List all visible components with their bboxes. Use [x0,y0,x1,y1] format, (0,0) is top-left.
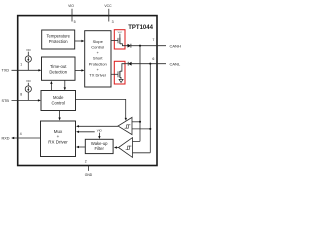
svg-text:Filter: Filter [95,146,105,151]
svg-text:Protection: Protection [49,39,69,44]
block Wake-up Filter [85,139,113,153]
wire Wake-up Filter to Mux [78,146,85,148]
svg-text:3: 3 [112,20,114,24]
block Time-out Detection [42,57,76,80]
wake-up comparator U2 [119,138,133,158]
transistor high-side PMOS [119,34,121,38]
svg-text:7: 7 [152,38,154,42]
svg-text:RXD: RXD [2,136,10,140]
svg-text:2: 2 [85,159,87,163]
current source VIO pull on TXD [25,48,31,70]
svg-text:VIO: VIO [26,48,31,52]
svg-text:VIO: VIO [97,128,103,132]
svg-text:Detection: Detection [49,69,67,74]
svg-text:Mux: Mux [54,129,63,134]
svg-text:Mode: Mode [53,95,64,100]
ground symbol [119,79,123,82]
RX comparator U1 [118,117,132,134]
transistor low-side NMOS [119,71,121,78]
block Mux + RX Driver [41,121,76,157]
chip outline TPT1044 [18,16,157,166]
svg-text:8: 8 [20,93,22,97]
wire Temperature Protection to Slope block [75,40,82,42]
low-side driver red box [111,61,125,84]
wire RX comparator output to Mux [78,125,118,127]
svg-text:Time-out: Time-out [50,64,67,69]
enable wire Mode Control to RX comparator [76,99,126,118]
svg-text:Control: Control [91,45,104,50]
svg-text:CANL: CANL [170,62,181,67]
pin TXD (1) [2,62,42,72]
drain wire to CANH diode [120,44,128,46]
diode D1 to CANH [128,44,131,48]
arrow Mode Control down to Mux [59,111,61,119]
svg-text:Short: Short [93,56,103,61]
block Mode Control [41,91,76,111]
source to ground [120,77,121,79]
svg-text:VIO: VIO [68,4,74,8]
block Temperature Protection [42,30,75,49]
svg-text:CANH: CANH [170,43,181,48]
svg-text:TPT1044: TPT1044 [128,25,153,31]
net CANL (pin 6) [132,57,181,66]
svg-text:TXD: TXD [2,69,10,73]
svg-text:RX Driver: RX Driver [48,140,68,145]
arrow Mode Control up to Time-out Detection [50,84,52,91]
svg-text:STB: STB [2,99,10,103]
svg-text:1: 1 [20,62,22,66]
gate wire from Slope block [111,40,118,42]
svg-text:GND: GND [85,173,93,177]
svg-text:4: 4 [20,132,22,136]
svg-text:Protection: Protection [89,61,107,66]
pin VIO (5) [68,4,76,24]
wire Time-out Detection to Slope block [75,69,82,71]
svg-text:+: + [57,134,60,139]
gate wire from Slope block [111,73,118,75]
wire CANH down to receivers [133,46,141,142]
svg-text:VIO: VIO [26,79,31,83]
svg-text:6: 6 [152,57,154,61]
svg-text:Control: Control [51,100,65,105]
VIO reference into Mux and Wake-up Filter [76,128,103,139]
current source VIO pull on STB [25,79,31,100]
wire CANL down to receivers [133,64,151,153]
pin GND (2) [85,159,93,177]
svg-text:TX Driver: TX Driver [89,73,107,78]
node junction CANL to RX comparator [132,128,150,130]
drain wire up to CANL diode [120,64,126,71]
svg-text:Temperature: Temperature [46,34,70,39]
pin STB (8) [2,93,41,103]
arrow Time-out Detection down to Mode Control [64,80,66,88]
net CANH (pin 7) [131,38,181,48]
svg-text:5: 5 [74,20,76,24]
wire wake-up comparator to Wake-up Filter [117,147,119,149]
high-side driver red box [111,30,128,49]
pin VCC (3) [104,4,113,24]
pin RXD (4) [2,132,41,141]
node junction CANH to RX comparator [132,121,140,123]
diode D2 from CANL [125,62,131,66]
svg-text:Slope: Slope [93,39,104,44]
svg-text:VCC: VCC [104,4,112,8]
block Slope Control + Short Protection + TX Driver [85,31,111,87]
